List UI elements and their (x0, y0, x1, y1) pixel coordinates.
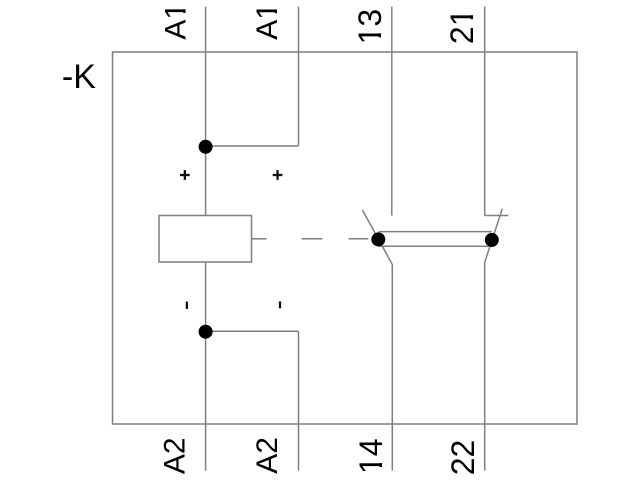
NO contact 13-14 moving blade (362, 210, 392, 265)
svg-text:A2: A2 (251, 437, 284, 474)
polarity minus sign, rotated bar (second coil terminal) (279, 301, 281, 308)
terminal label 21 (NC contact) (444, 9, 480, 45)
svg-text:A2: A2 (159, 437, 192, 474)
mechanical link dashed line: dash 3 (349, 238, 369, 240)
terminal label 13 (NO contact) (352, 9, 388, 45)
terminal label A1 (coil +, second) (251, 3, 284, 40)
wire terminal 13 vertical (391, 7, 393, 216)
wire A2 bridge horizontal to junction (206, 330, 299, 332)
svg-text:13: 13 (352, 9, 388, 45)
terminal label A2 (coil -, second) (251, 437, 284, 474)
contact bridge top edge (378, 231, 492, 233)
contact dot 21-22 (485, 233, 499, 247)
contact dot 13-14 (371, 232, 385, 246)
polarity plus sign (second coil terminal) (273, 174, 283, 176)
svg-text:A1: A1 (251, 3, 284, 40)
terminal label 22 (NC contact) (445, 440, 481, 476)
terminal label A1 (coil +, left) (159, 3, 192, 40)
wire terminal 14 vertical (391, 265, 393, 471)
mechanical link dashed line coil to contacts: dash 1 (252, 238, 267, 240)
wire A1-A2 main vertical (through coil) (205, 7, 207, 471)
terminal label A2 (coil -, left) (159, 437, 192, 474)
contact bridge bottom edge (378, 245, 492, 247)
junction dot A1 (199, 140, 213, 154)
junction dot A2 (199, 325, 213, 339)
svg-text:22: 22 (445, 440, 481, 476)
wire terminal 21 vertical (484, 7, 486, 216)
NC contact 21-22 moving blade (485, 209, 503, 262)
wire A1 bridge horizontal to junction (206, 145, 299, 147)
polarity plus sign (left coil terminal) (180, 174, 190, 176)
device outline box (113, 52, 578, 424)
mechanical link dashed line: dash 2 (302, 238, 323, 240)
svg-text:-K: -K (62, 58, 96, 96)
svg-text:A1: A1 (159, 3, 192, 40)
wire terminal 22 vertical (484, 262, 486, 470)
wire A1 second vertical (top) (298, 7, 300, 146)
coil K1 rectangle (159, 216, 252, 263)
svg-text:21: 21 (444, 9, 480, 45)
polarity minus sign, rotated bar (left coil terminal) (186, 302, 188, 309)
wire A2 second vertical (bottom) (298, 331, 300, 470)
wire terminal 21 fixed contact bar (485, 215, 509, 217)
svg-text:14: 14 (353, 439, 389, 475)
terminal label 14 (NO contact) (353, 439, 389, 475)
